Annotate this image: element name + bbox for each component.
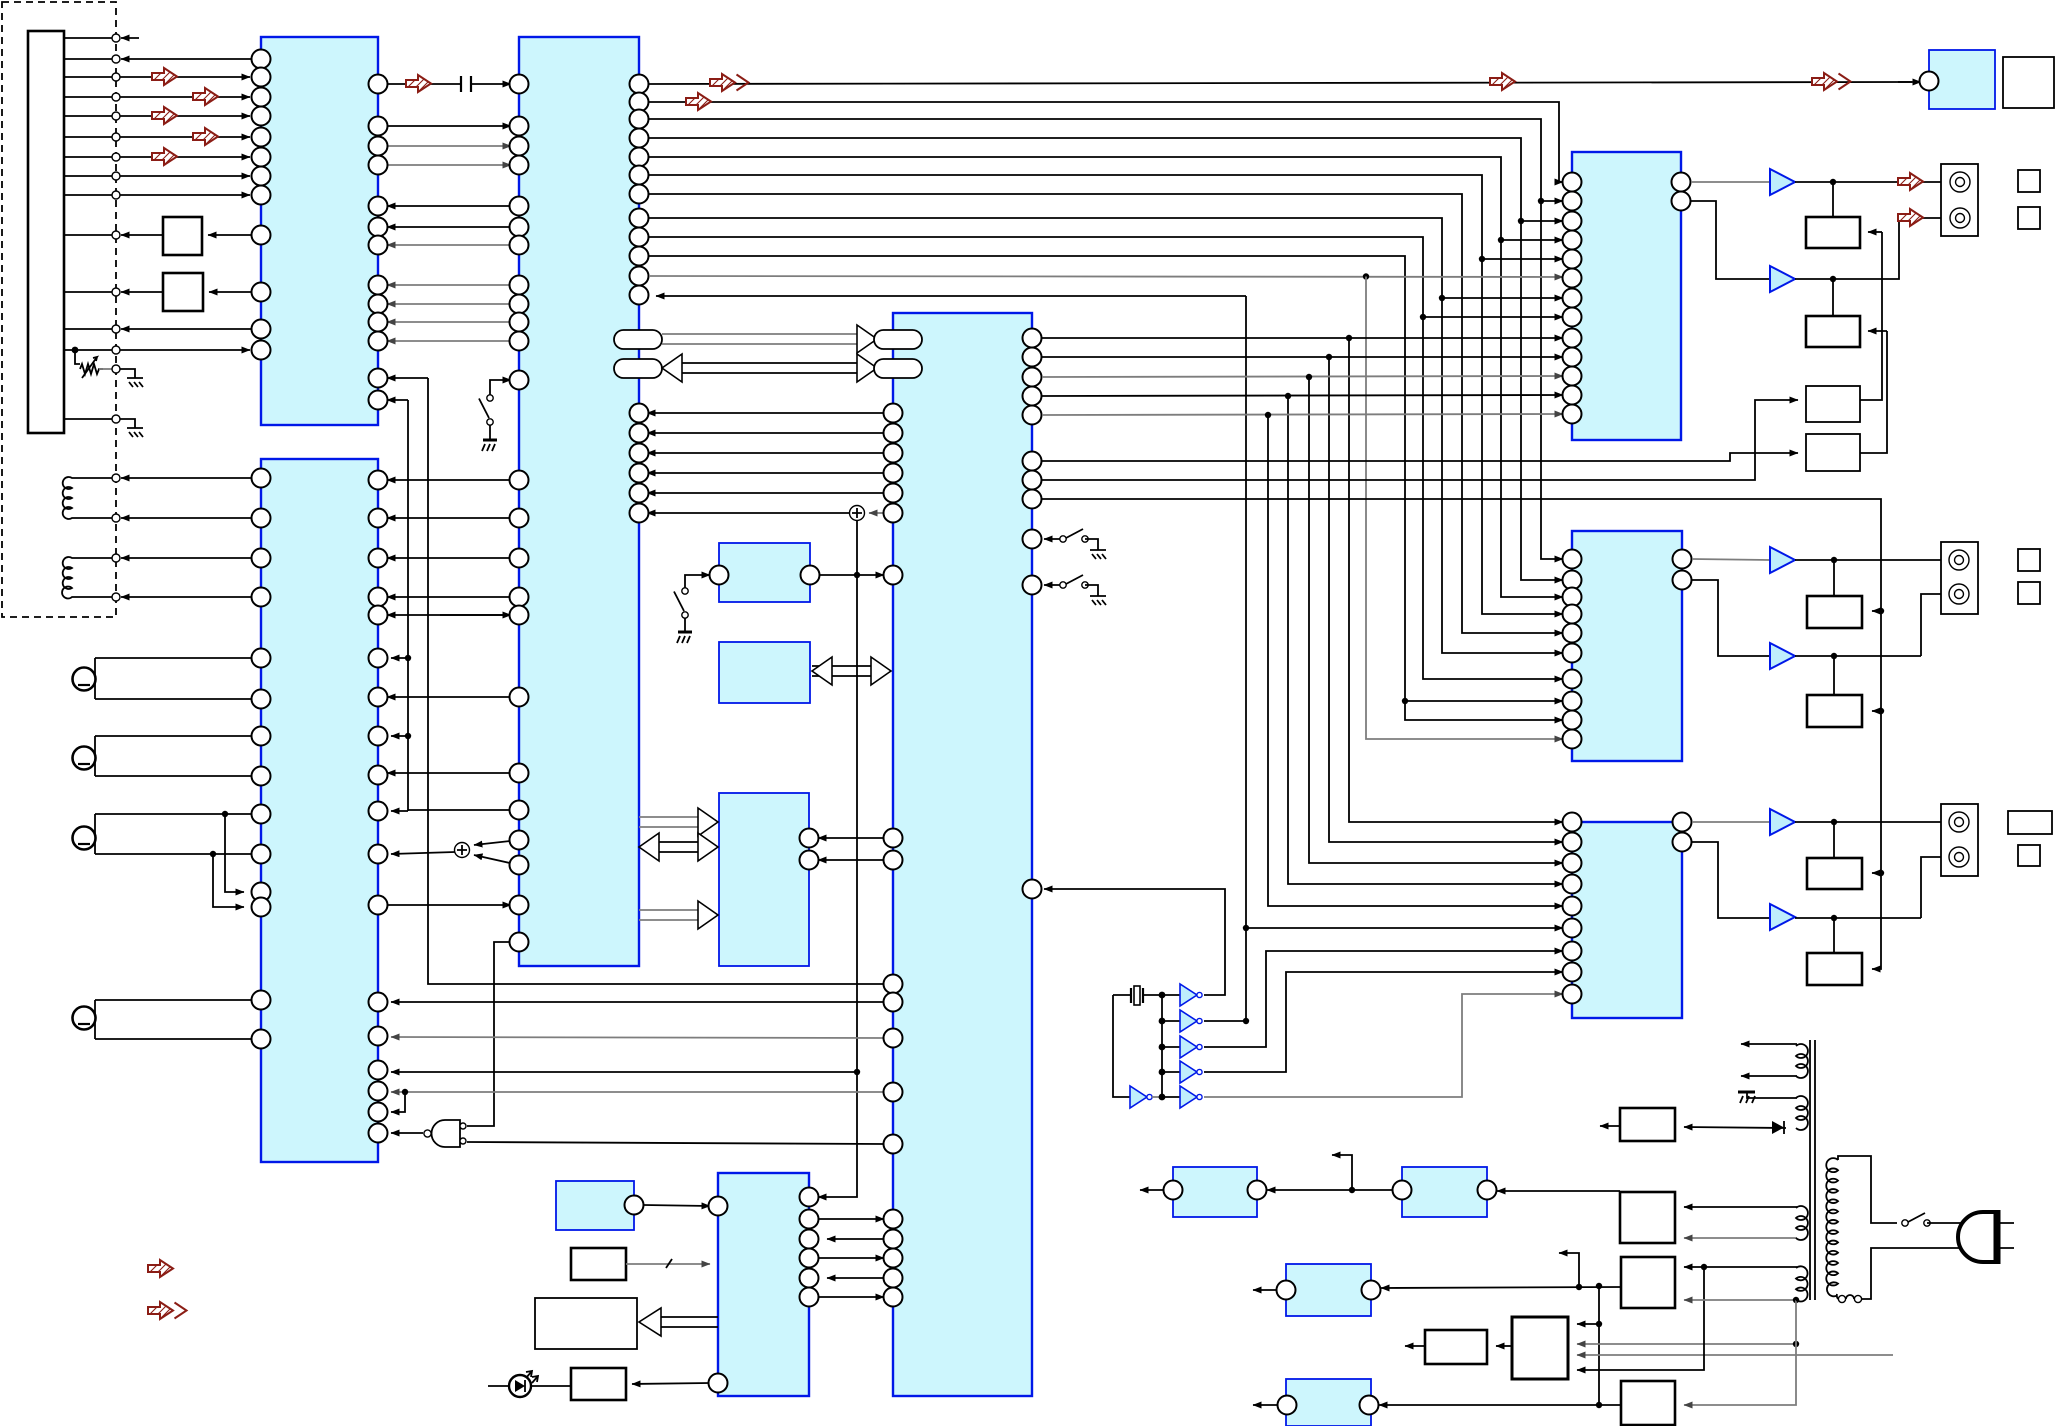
mic MC2 <box>73 736 96 776</box>
wire D to NAND lower input <box>467 1142 884 1144</box>
bus C to T row1 grey <box>639 808 718 836</box>
switch SW2 with ground <box>674 575 710 643</box>
block T <box>719 793 809 966</box>
wire L1a to B <box>84 474 262 482</box>
inverter INV2 <box>1162 1010 1202 1032</box>
box R3b <box>1806 232 1882 422</box>
wire net row194 to K1p6 K2p5 <box>649 194 1563 633</box>
wire net D480 to R3b <box>1042 400 1798 480</box>
wire A2b to jack lower <box>1795 594 1950 659</box>
wire C-A row7 grey <box>387 244 519 246</box>
coil secondary C <box>1796 1206 1808 1240</box>
pins K1 right <box>1672 173 1691 211</box>
IC B main block <box>261 459 378 1162</box>
wire D-B 1002 <box>391 1001 884 1003</box>
inverter INV5 <box>1162 1086 1202 1108</box>
square Q1a <box>2018 170 2040 192</box>
pins D right <box>1023 329 1042 899</box>
wire J100 to A row3 with flag <box>64 66 250 87</box>
block S1 <box>719 543 810 602</box>
wire J100 to A row8 <box>64 172 250 180</box>
panel dashed boundary <box>2 2 116 617</box>
resistor RV1 variable <box>75 350 120 378</box>
wire J100 stub row1 <box>64 34 139 42</box>
wire J100 to A row2 <box>64 55 252 63</box>
wire MC4a to B <box>95 999 262 1001</box>
wire J100 to A row9 <box>64 191 250 199</box>
relay M1 <box>1173 1167 1257 1217</box>
wire C-B row 597 <box>387 596 519 598</box>
wire net row175 to K1p5 K2p4 <box>649 175 1563 614</box>
box P1 <box>1620 1108 1675 1141</box>
box Q main <box>1512 1317 1568 1379</box>
wire net row237 to K1p8 K2p7 <box>649 237 1563 679</box>
wire D-T 860 <box>818 859 884 861</box>
stub V1 to B 811 <box>391 810 408 812</box>
crystal X1 <box>1113 986 1162 1005</box>
wire net D338 to K1p9 K3p1 <box>1042 335 1563 822</box>
relay M3 <box>1286 1264 1371 1316</box>
pins C left upper <box>510 75 529 390</box>
wires E to D rows <box>818 1219 884 1297</box>
mic MC3 <box>73 814 96 854</box>
amp A3b <box>1692 842 1795 930</box>
pins M4 <box>1278 1396 1379 1415</box>
pins C left lower <box>510 471 529 952</box>
wire A3a to jack <box>1795 819 1950 825</box>
summing node SG1 and wire D-C 513 <box>647 506 884 521</box>
block S2 <box>719 642 810 703</box>
wire A-C row2 <box>378 125 511 127</box>
switch SW4 at D585 <box>1044 575 1106 605</box>
coil secondary B <box>1738 1092 1808 1130</box>
wire A1b to jack R <box>1795 207 1950 282</box>
pins B left <box>252 469 271 1049</box>
pins K2 left <box>1563 550 1582 749</box>
jack box J1 <box>1941 164 1978 236</box>
wire net row102 to K1p1 <box>649 91 1563 182</box>
wire C-B row 558 <box>387 557 519 559</box>
vertical net from SG1 <box>818 520 860 1197</box>
wire INV5 to K3 p9 grey <box>1204 994 1563 1097</box>
wire coil E bot grey to P4 <box>1684 1297 1799 1303</box>
wire N1 out left <box>1405 1345 1425 1347</box>
wire M2 to M1 with hook <box>1267 1155 1399 1193</box>
box R3 <box>1807 560 1862 628</box>
wire V2 net A378 to D984 <box>387 378 884 984</box>
box G2 <box>535 1298 637 1349</box>
mic MC4 <box>73 1000 96 1039</box>
wire F to E <box>644 1205 710 1206</box>
bus C to T row2 bidirectional <box>639 833 718 861</box>
wire net row84 to TR <box>649 71 1921 93</box>
coil primary P <box>1826 1158 1838 1296</box>
amp A1b <box>1691 201 1795 292</box>
wire net D396 to K1p12 K3p4 <box>1042 393 1563 884</box>
wire A-C row3 grey <box>378 145 511 147</box>
bus stadium C lower bidirectional <box>614 354 877 382</box>
wire net D415 grey to K1p13 K3p5 <box>1042 412 1563 906</box>
IC C main block <box>519 37 639 966</box>
box P2 <box>1620 1192 1675 1243</box>
wire B-C row 905 <box>387 904 511 906</box>
square Q3b <box>2018 845 2040 866</box>
wire J100 to A row4 with flag <box>64 86 250 107</box>
pins D left <box>884 404 903 1154</box>
box G3 <box>571 1368 626 1400</box>
wire C-B row 773 <box>387 772 519 774</box>
wire G1 to E with slash <box>626 1259 710 1268</box>
wire P1 out <box>1600 1125 1620 1127</box>
pin F right <box>625 1196 644 1215</box>
wire E to G3 <box>632 1383 710 1384</box>
amp A1a <box>1691 169 1795 195</box>
wire P5 row to M4 <box>1379 1404 1621 1406</box>
wire D-C 433 <box>647 432 884 434</box>
bus stadium C upper <box>614 325 877 353</box>
box R1 <box>1806 182 1882 248</box>
primary top lead and switch SW5 <box>1838 1156 1969 1226</box>
wire net D461 to R4b <box>1042 453 1798 461</box>
wire net row138 to K1p3 K2p2 <box>649 138 1563 580</box>
wire MC2a to B <box>95 735 262 737</box>
wire coil E top to P4 <box>1684 1266 1797 1268</box>
bus stadium D lower <box>874 359 922 378</box>
wire INV1 to D889 <box>1044 889 1225 995</box>
wire net row157 to K1p4 K2p3 <box>649 157 1563 597</box>
inverter INV3 <box>1162 1036 1202 1058</box>
wire coilC top to P2 <box>1684 1206 1797 1208</box>
wire A-C row1 with flag and capacitor C1 <box>378 73 511 94</box>
block TR top-right <box>1929 50 1995 109</box>
connector J100 tall rectangle <box>28 31 64 433</box>
rect Q3a <box>2008 811 2052 834</box>
inverter INV4 <box>1162 1061 1202 1083</box>
square Q2a <box>2018 549 2040 571</box>
block E <box>718 1173 809 1396</box>
inverter INV0 <box>1130 1086 1162 1108</box>
wire net row119 to K1p2 K2p1 <box>649 119 1563 559</box>
transformer T901 core <box>1810 1040 1815 1300</box>
summing node SG2 <box>391 840 519 865</box>
pins M2 <box>1393 1181 1497 1200</box>
pins M1 <box>1164 1181 1267 1200</box>
wire D-B 1091 grey with branch <box>391 1089 884 1112</box>
bus E to G2 open arrow <box>639 1308 718 1336</box>
jack box J2 <box>1941 542 1978 614</box>
wire A to AB2 to J100 <box>64 288 252 296</box>
IC K1 <box>1572 152 1681 440</box>
wire TR input <box>1920 72 1939 91</box>
wire MC1b to B <box>95 698 262 700</box>
wire M1 out left <box>1140 1189 1163 1191</box>
pins M3 <box>1277 1281 1381 1300</box>
feedback wire osc <box>1113 995 1130 1097</box>
wire B-C row 615 <box>387 614 519 616</box>
wire net row218 to K1p7 K2p6 <box>649 218 1563 653</box>
wire A2a to jack <box>1795 557 1950 563</box>
wire C row 810 to V1 <box>408 809 519 811</box>
bus C to T row3 grey <box>639 901 718 929</box>
IC D main block <box>893 313 1032 1396</box>
wire J100 to A row6 with flag <box>64 126 250 147</box>
pins S1 <box>710 566 820 585</box>
wire MC2b to B <box>95 775 262 777</box>
coil L1 <box>63 477 84 519</box>
flag legend double <box>146 1300 187 1321</box>
amp A2a <box>1692 547 1795 573</box>
wire J100 to A row12 <box>64 325 252 333</box>
wire SG1 tap to B 1070 <box>391 1071 857 1073</box>
wire C-A row9 grey <box>387 303 519 305</box>
IC K2 <box>1572 531 1682 761</box>
box P4 <box>1621 1257 1675 1308</box>
wire C-A row6 <box>387 226 519 228</box>
flag legend single <box>146 1258 173 1279</box>
wire J100 bottom row <box>64 415 120 423</box>
jack box J3 <box>1941 804 1978 876</box>
IC K3 <box>1572 822 1682 1018</box>
square Q1b <box>2018 207 2040 229</box>
pins C right <box>630 75 649 523</box>
relay M4 <box>1286 1379 1371 1426</box>
wire C-A row8 grey <box>387 284 519 286</box>
pins A left <box>252 50 271 360</box>
box R4 <box>1807 656 1862 727</box>
bus stadium D upper <box>874 330 922 349</box>
box R5 <box>1807 822 1862 889</box>
wire A1a to jack L with flag <box>1795 171 1950 192</box>
wire net D357 to K1p10 K3p2 <box>1042 354 1563 842</box>
box N1 <box>1425 1330 1487 1364</box>
wire L1b to B <box>84 514 262 522</box>
AC plug <box>1958 1210 2014 1264</box>
pins K3 left <box>1563 813 1582 1004</box>
square Q2b <box>2018 582 2040 604</box>
switch SW3 at D539 <box>1044 529 1106 559</box>
wire C-A row11 grey <box>387 340 519 342</box>
wire S1 to D <box>820 574 884 576</box>
wire INV3 to K3 p7 <box>1204 951 1563 1047</box>
wire J100 to A row7 with flag <box>64 146 250 167</box>
wire V1 net A400 bus <box>387 400 408 811</box>
primary bottom lead and fuse F1 <box>1837 1248 1969 1303</box>
grey vertical to P5 <box>1684 1300 1796 1405</box>
wire C942 to NAND vertical <box>494 942 510 1120</box>
relay M2 <box>1402 1167 1487 1217</box>
box R6 <box>1807 918 1862 985</box>
LED D1 <box>488 1371 571 1397</box>
wire M3 out left <box>1253 1289 1276 1291</box>
wire MC3a to B with tap <box>95 811 262 892</box>
wire D-T 838 <box>818 837 884 839</box>
inverter INV1 <box>1162 984 1202 1006</box>
wire C-A row5 <box>387 205 519 207</box>
box G1 <box>571 1248 626 1280</box>
box TRR <box>2003 57 2054 108</box>
wire D-C 453 <box>647 452 884 454</box>
wire A3b to jack lower <box>1795 857 1950 921</box>
pins K1 left <box>1563 173 1582 424</box>
bus S2 to D bidirectional <box>812 657 891 685</box>
wire net row295 to oscillator column <box>656 296 1246 1021</box>
wire junction to A row13 <box>64 346 250 354</box>
box AB2 <box>163 273 203 311</box>
amp A3a <box>1692 809 1795 835</box>
ground G1 <box>120 369 143 387</box>
vertical 1599 to Q and P5 row <box>1577 1286 1602 1408</box>
wire C-B row 697 <box>387 696 519 698</box>
wire D-C 413 <box>647 412 884 414</box>
pins D left lower <box>884 1210 903 1307</box>
wire L2b to B <box>84 593 262 601</box>
switch SW1 to C pin380 <box>479 380 511 451</box>
pins E right <box>800 1188 819 1307</box>
NAND gate U10 <box>391 1120 494 1147</box>
block F <box>556 1181 634 1230</box>
coil secondary E <box>1796 1266 1808 1301</box>
wire MC4b to B <box>95 1038 262 1040</box>
pins E left <box>709 1197 728 1393</box>
box P5 <box>1621 1381 1675 1425</box>
pins B right <box>369 471 388 1143</box>
wire J100 to A row5 with flag <box>64 105 250 126</box>
wire net D377 grey to K1p11 K3p3 <box>1042 374 1563 863</box>
box R4b <box>1806 331 1887 471</box>
box R2 <box>1806 279 1887 347</box>
wire INV2 to K3 p6 <box>1204 925 1563 1024</box>
stub V1 to B 736 <box>391 733 411 739</box>
IC A main block <box>261 37 378 425</box>
coil secondary A <box>1741 1044 1808 1078</box>
pins K3 right <box>1673 813 1692 852</box>
wire net row276 grey to K1p278 and K2p10 <box>649 273 1563 739</box>
wire MC3b to B with tap <box>95 851 262 907</box>
wire D-C 473 <box>647 472 884 474</box>
wire A to AB1 to J100 <box>64 231 252 239</box>
wire D-B 1036 grey <box>391 1037 884 1038</box>
amp A2b <box>1692 580 1795 669</box>
wire M4 out left <box>1253 1404 1277 1406</box>
stub V1 to B 658 <box>391 655 411 661</box>
osc junction column <box>1159 992 1166 1101</box>
wire Q to N1 <box>1496 1345 1512 1347</box>
wire C-B row 518 <box>387 517 519 519</box>
wire L2a to B <box>84 554 262 562</box>
ground G2 <box>120 419 143 437</box>
wire A-C row4 grey <box>378 164 511 166</box>
wire Q input bottom <box>1577 1264 1707 1370</box>
coil L2 <box>62 557 84 598</box>
wire INV4 to K3 p8 <box>1204 972 1563 1072</box>
wire C-A row10 grey <box>387 321 519 323</box>
pins K2 right <box>1673 550 1692 590</box>
pins T right <box>800 829 819 870</box>
diode D2 and wire coilB to P1 <box>1684 1121 1786 1134</box>
wire Q input grey rows <box>1577 1341 1893 1355</box>
wire coilC bot grey to P2 <box>1684 1237 1797 1239</box>
box AB1 <box>163 217 202 255</box>
wire P2 to M2 <box>1497 1190 1620 1192</box>
wire C-B row 480 <box>387 479 519 481</box>
wire D-C 493 <box>647 492 884 494</box>
wire MC1a to B <box>95 657 262 659</box>
pins A right <box>369 75 388 410</box>
mic MC1 <box>73 658 96 699</box>
wire net D499 trunk <box>1042 499 1884 969</box>
wire net row256 to K2p8 K2p9 <box>649 256 1563 720</box>
wire to M3 right with hook and taps <box>1381 1253 1621 1290</box>
